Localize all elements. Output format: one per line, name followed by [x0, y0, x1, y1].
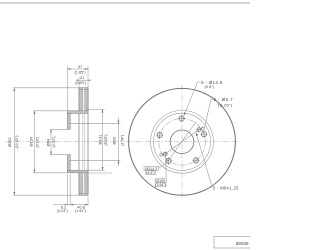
- svg-text:21: 21: [80, 75, 85, 80]
- svg-text:2 - Ø6.7: 2 - Ø6.7: [214, 97, 234, 102]
- svg-text:Ø90: Ø90: [112, 136, 117, 144]
- boxed label (3.94"): [155, 183, 165, 187]
- dimension 6.2 flange thickness: [53, 174, 70, 206]
- svg-text:Ø141: Ø141: [97, 134, 102, 145]
- dimension 21 disc thickness: [77, 77, 90, 88]
- svg-text:(2.52"): (2.52"): [52, 137, 56, 148]
- svg-text:Ø262: Ø262: [7, 136, 12, 147]
- dimension D262: [13, 88, 79, 195]
- PCD diagonal through bolt hole 4: [159, 122, 196, 169]
- svg-text:2 - M8x1.25: 2 - M8x1.25: [213, 185, 239, 190]
- vent wall lines: [82, 88, 84, 111]
- M8 hole 2 (lower left): [163, 151, 168, 156]
- boxed label (4.5"): [146, 171, 155, 175]
- page background: [0, 0, 250, 250]
- bolt circle PCD (dash-dot): [159, 119, 206, 166]
- leader 2-D6.7: [204, 100, 213, 129]
- dimension D141 (ring inner): [86, 109, 112, 173]
- hat mounting flange lower half (hatched): [67, 155, 70, 171]
- small hole D6.7 #2 (lower left): [160, 153, 163, 156]
- hat mounting flange upper half (hatched): [67, 113, 70, 129]
- svg-text:(1.85"): (1.85"): [75, 71, 86, 75]
- dimension D64 (center bore): [50, 129, 67, 154]
- svg-text:(6.14"): (6.14"): [35, 137, 39, 148]
- svg-text:(0.24"): (0.24"): [57, 209, 68, 213]
- vertical centerline: [181, 86, 183, 199]
- svg-text:(0.83"): (0.83"): [75, 81, 86, 85]
- dimension 47 overall height: [67, 66, 88, 111]
- center bore circle: [170, 130, 194, 154]
- M8 hole 1 (upper right): [196, 127, 201, 132]
- svg-text:Ø64: Ø64: [45, 138, 50, 146]
- OD chamfer lines: [79, 88, 88, 90]
- PCD diagonal through M8 holes: [165, 127, 203, 154]
- horizontal centerline: [126, 141, 240, 143]
- boxed label D100: [155, 179, 166, 183]
- svg-text:(1.61"): (1.61"): [75, 209, 86, 213]
- leader stub from D100 box: [165, 156, 168, 178]
- small hole D6.7 #1 (upper right): [202, 128, 205, 131]
- bolt hole 1 (top): [178, 115, 185, 122]
- svg-text:(10.32"): (10.32"): [15, 136, 19, 149]
- friction ring top hatched block: [79, 88, 88, 111]
- part number box: [214, 237, 252, 249]
- outer diameter circle: [129, 88, 236, 195]
- svg-text:(5.55"): (5.55"): [104, 135, 108, 146]
- svg-text:(3.54"): (3.54"): [121, 135, 125, 146]
- bolt hole 5 (left): [156, 131, 163, 138]
- svg-text:47: 47: [78, 64, 83, 69]
- friction ring outline: [79, 88, 88, 195]
- bolt hole 4 (bottom left): [165, 157, 172, 164]
- svg-text:(4.5"): (4.5"): [146, 171, 154, 175]
- svg-text:Ø156: Ø156: [28, 136, 33, 147]
- boxed label D114.3: [144, 166, 159, 170]
- svg-text:59038: 59038: [236, 241, 249, 246]
- dimension 40.8: [70, 197, 88, 206]
- top border rule: [0, 2, 250, 4]
- hat junction strip bottom (hatched): [67, 170, 88, 173]
- hat outer circle: [151, 110, 214, 173]
- svg-text:(0.5"): (0.5"): [205, 84, 215, 89]
- dimension D156: [33, 111, 67, 173]
- vent gap top (white slot between plates): [83, 88, 85, 111]
- hat junction strip top (hatched): [67, 111, 88, 114]
- leader 2-M8x1.25: [196, 133, 212, 188]
- dimension D90: [70, 118, 120, 167]
- bolt hole 2 (right): [200, 131, 207, 138]
- friction ring bottom hatched block: [79, 173, 88, 195]
- ring inner circle: [153, 113, 210, 170]
- section centerline (axis): [6, 141, 122, 143]
- leader 5-D12.8: [184, 82, 201, 116]
- bolt hole 3 (bottom right): [192, 157, 199, 164]
- vent gap bottom (white slot between plates): [83, 173, 85, 194]
- svg-text:(3.94"): (3.94"): [155, 183, 165, 187]
- svg-text:(0.26"): (0.26"): [218, 103, 233, 108]
